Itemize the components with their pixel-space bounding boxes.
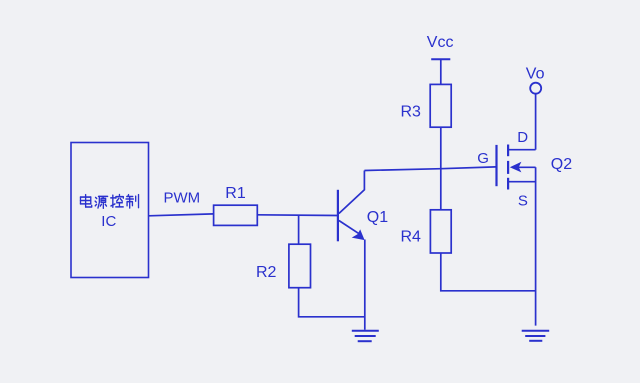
svg-text:Q2: Q2 (551, 156, 572, 173)
glyph 源 (95, 196, 107, 208)
mosfet Q2 body arrowhead (510, 162, 522, 173)
svg-text:R2: R2 (256, 264, 277, 281)
svg-text:IC: IC (101, 213, 116, 230)
terminal Vo circle (530, 83, 541, 94)
svg-text:R3: R3 (401, 104, 422, 121)
transistor Q1 emitter stroke (339, 221, 361, 235)
label 电源控制 (hand-drawn CJK glyphs) (80, 195, 138, 209)
svg-text:PWM: PWM (164, 189, 201, 206)
resistor R2 (289, 244, 311, 288)
wire R4 bottom to source net (441, 253, 536, 291)
glyph 电 (80, 195, 91, 207)
svg-text:Vcc: Vcc (427, 34, 454, 51)
node base junction / wire to R2 (298, 215, 300, 244)
glyph 控 (111, 195, 124, 208)
svg-text:R1: R1 (225, 185, 246, 202)
mosfet Q2 source tick (508, 181, 535, 183)
transistor Q1 collector stroke (339, 171, 365, 214)
svg-text:D: D (517, 129, 528, 146)
resistor R4 (430, 210, 451, 253)
wire drain to Vo (535, 94, 537, 150)
mosfet Q2 drain tick (508, 149, 535, 151)
mosfet Q2 channel segment top (507, 145, 509, 157)
svg-text:R4: R4 (401, 228, 422, 245)
wire R1 to Q1 base (257, 214, 338, 217)
wire source down to ground (535, 167, 537, 325)
svg-text:Vo: Vo (526, 66, 545, 83)
mosfet Q2 body arrow line (519, 166, 536, 168)
resistor R1 (214, 205, 258, 225)
svg-text:S: S (518, 193, 528, 210)
Vcc supply bar (431, 58, 450, 60)
resistor R3 (430, 84, 451, 127)
mosfet Q2 channel segment middle (507, 161, 509, 174)
wire R2 bottom to emitter net (299, 288, 365, 317)
wire IC output to R1 (149, 214, 214, 216)
wire R3 to R4 through gate node (440, 127, 442, 210)
IC box U1 电源控制IC (71, 143, 149, 278)
ground (Q1 emitter) (352, 330, 379, 332)
glyph 制 (126, 195, 138, 208)
wire collector to gate node (364, 167, 495, 171)
transistor Q1 emitter arrowhead (352, 229, 365, 240)
wire emitter down (364, 240, 366, 330)
ground (Q2 source) (522, 330, 550, 332)
mosfet Q2 gate bar (495, 145, 497, 186)
svg-text:Q1: Q1 (367, 209, 388, 226)
wire Vcc to R3 (440, 59, 442, 84)
svg-text:G: G (477, 150, 489, 167)
transistor Q1 base bar (337, 190, 339, 242)
mosfet Q2 channel segment bottom (507, 178, 509, 190)
